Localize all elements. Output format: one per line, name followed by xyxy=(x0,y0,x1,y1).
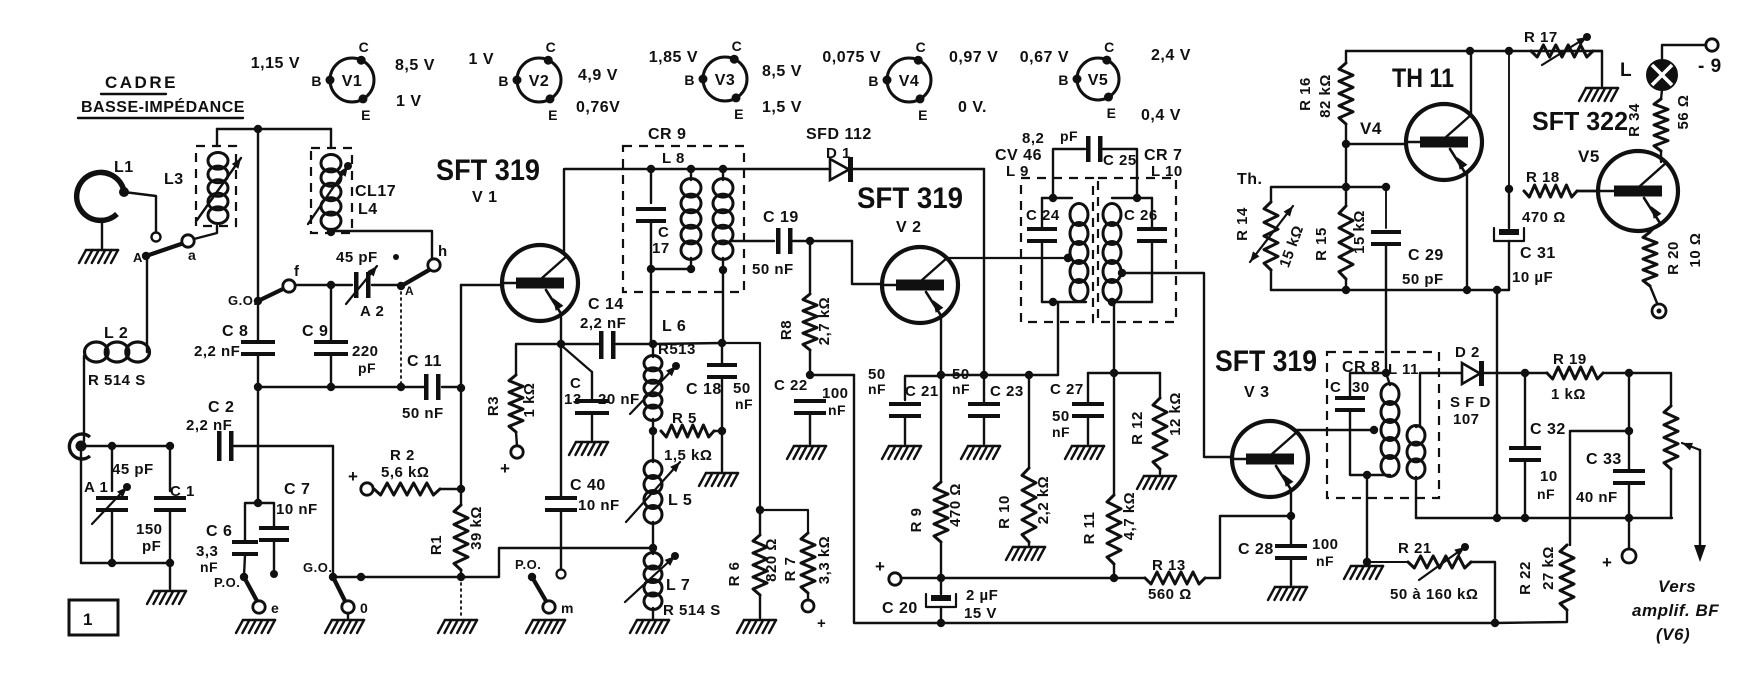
svg-text:R 18: R 18 xyxy=(1526,169,1560,186)
wire R18 node vertical xyxy=(1505,51,1513,193)
svg-text:+: + xyxy=(875,557,885,576)
svg-text:10: 10 xyxy=(1540,468,1558,485)
svg-text:L 10: L 10 xyxy=(1151,163,1183,180)
svg-text:45 pF: 45 pF xyxy=(336,249,378,266)
coax input connector xyxy=(69,434,174,459)
svg-text:R 9: R 9 xyxy=(908,508,925,533)
svg-text:Vers: Vers xyxy=(1658,577,1696,596)
capacitor C28 100nF xyxy=(1238,536,1339,600)
svg-text:100: 100 xyxy=(1312,536,1339,553)
svg-text:C 14: C 14 xyxy=(588,296,624,313)
wire L8 secondary tap to C19 xyxy=(731,240,774,242)
svg-text:10 µF: 10 µF xyxy=(1512,269,1553,286)
wire C2 to switch GO-o xyxy=(332,446,334,577)
ground under L1 xyxy=(79,220,118,263)
capacitor C9 220pF xyxy=(302,285,379,387)
resistor R16 82kOhm xyxy=(1297,51,1353,148)
svg-text:15 V: 15 V xyxy=(964,605,997,622)
svg-text:2 µF: 2 µF xyxy=(966,587,998,604)
svg-text:15 kΩ: 15 kΩ xyxy=(1351,210,1368,254)
svg-text:50 à 160 kΩ: 50 à 160 kΩ xyxy=(1390,586,1478,603)
svg-text:R 7: R 7 xyxy=(782,557,799,582)
svg-text:V2: V2 xyxy=(529,73,550,90)
svg-text:R 514 S: R 514 S xyxy=(88,372,146,389)
svg-text:R 514 S: R 514 S xyxy=(663,602,721,619)
svg-text:2,2 nF: 2,2 nF xyxy=(194,343,240,360)
svg-text:CADRE: CADRE xyxy=(105,73,178,92)
svg-text:C 11: C 11 xyxy=(407,353,442,370)
svg-text:1,5 V: 1,5 V xyxy=(762,99,802,116)
frame antenna L1 xyxy=(77,159,134,220)
coil L2 R514S xyxy=(84,257,150,441)
switch G.O.-f xyxy=(228,263,335,308)
wire V2 emitter down xyxy=(937,316,945,582)
transistor V5 SFT322 xyxy=(1598,151,1678,231)
IF transformer CR9 dashed box xyxy=(623,126,744,292)
+ terminal below C33 xyxy=(1602,518,1636,572)
svg-text:E: E xyxy=(1107,105,1117,121)
wire AGC takeoff to R22 xyxy=(1570,373,1633,545)
wire V1 emitter down xyxy=(557,314,565,497)
resistor R12 12kOhm xyxy=(1129,373,1184,489)
figure number box 1 xyxy=(69,600,118,635)
capacitor C6 3,3nF xyxy=(196,503,258,576)
wire V1 base xyxy=(461,284,503,286)
svg-text:a: a xyxy=(188,247,196,263)
svg-text:82 kΩ: 82 kΩ xyxy=(1317,74,1334,118)
svg-text:2,7 kΩ: 2,7 kΩ xyxy=(816,297,833,345)
svg-text:40 nF: 40 nF xyxy=(1576,489,1618,506)
AGC rail y=375 xyxy=(941,371,1058,379)
+ terminal and supply bus y=578 xyxy=(875,557,1145,585)
svg-text:C 18: C 18 xyxy=(686,381,722,398)
svg-text:50: 50 xyxy=(1052,408,1070,425)
svg-text:470 Ω: 470 Ω xyxy=(947,483,964,527)
svg-text:R 12: R 12 xyxy=(1129,411,1146,445)
svg-text:A: A xyxy=(405,284,414,298)
IF coil L6 R513 xyxy=(630,318,696,462)
capacitor C26 xyxy=(1124,198,1167,302)
switch G.O.-o xyxy=(303,560,368,633)
svg-text:nF: nF xyxy=(828,402,846,418)
switch A-a (cadre selector) xyxy=(133,226,217,265)
coil L8 primary xyxy=(647,169,701,344)
resistor R11 4,7kOhm xyxy=(1081,373,1138,582)
svg-text:50 nF: 50 nF xyxy=(402,405,444,422)
svg-text:CR 9: CR 9 xyxy=(648,126,686,143)
diode D1 SFD112 xyxy=(806,126,984,182)
svg-text:C 29: C 29 xyxy=(1408,247,1444,264)
svg-text:10 nF: 10 nF xyxy=(578,497,620,514)
svg-text:h: h xyxy=(438,243,448,260)
svg-text:50: 50 xyxy=(733,380,751,397)
svg-text:3,3 kΩ: 3,3 kΩ xyxy=(816,536,833,584)
svg-text:(V6): (V6) xyxy=(1656,625,1690,644)
svg-text:R 16: R 16 xyxy=(1297,77,1314,111)
resistor R21 50-160kOhm adjustable xyxy=(1390,540,1495,623)
svg-text:220: 220 xyxy=(352,343,379,360)
svg-text:C: C xyxy=(1330,379,1341,396)
thermistor R14 15kOhm xyxy=(1234,171,1307,290)
svg-text:50 pF: 50 pF xyxy=(1402,271,1444,288)
capacitor C18 50nF xyxy=(653,339,753,486)
wire V4 emitter xyxy=(1463,173,1471,294)
IF transformer CR7/L10 dashed box xyxy=(1098,147,1183,322)
wire y=169 to IF transformer and D1 xyxy=(565,165,830,173)
top wire node xyxy=(217,125,331,133)
svg-text:SFT 319: SFT 319 xyxy=(857,182,963,215)
resistor R6 820Ohm xyxy=(726,510,780,633)
resistor R2 5,6kOhm with + terminal xyxy=(348,447,461,495)
svg-text:R8: R8 xyxy=(778,320,795,340)
AGC bus y=623 xyxy=(854,375,1495,623)
svg-text:C 27: C 27 xyxy=(1050,381,1084,398)
resistor R8 2,7kOhm xyxy=(778,241,833,379)
svg-text:L 7: L 7 xyxy=(666,577,690,594)
capacitor C23 50nF xyxy=(952,366,1024,459)
capacitor C24 xyxy=(1026,198,1060,302)
svg-text:SFD 112: SFD 112 xyxy=(806,126,872,143)
svg-text:470 Ω: 470 Ω xyxy=(1522,209,1566,226)
svg-text:C 23: C 23 xyxy=(990,383,1024,400)
svg-text:2,2 kΩ: 2,2 kΩ xyxy=(1035,476,1052,524)
capacitor C13 20nF xyxy=(562,346,640,455)
svg-text:C 6: C 6 xyxy=(206,523,232,540)
svg-text:0,97 V: 0,97 V xyxy=(949,49,998,66)
svg-text:nF: nF xyxy=(1316,553,1334,569)
svg-text:C: C xyxy=(1104,39,1115,55)
svg-text:1 kΩ: 1 kΩ xyxy=(521,383,538,418)
label Vers amplif. BF (V6) xyxy=(1632,577,1719,644)
coil L7 R514S (adjustable) xyxy=(625,552,721,633)
svg-text:A 1: A 1 xyxy=(84,479,108,496)
wire base node down xyxy=(1342,144,1350,191)
coil L10 xyxy=(1103,194,1152,306)
label SFT 322 V5 xyxy=(1532,106,1628,166)
svg-text:1 V: 1 V xyxy=(468,51,494,68)
svg-text:1: 1 xyxy=(83,610,93,629)
svg-text:m: m xyxy=(561,600,574,616)
transistor V2 SFT319 xyxy=(882,247,958,323)
svg-text:B: B xyxy=(684,72,695,88)
bottom wire of input circuit xyxy=(81,559,186,604)
svg-text:pF: pF xyxy=(1060,128,1078,144)
svg-text:E: E xyxy=(734,106,744,122)
IF transformer CV46/L9 dashed box xyxy=(995,147,1093,322)
svg-text:150: 150 xyxy=(136,521,163,538)
wire V4 collector xyxy=(1470,51,1472,115)
svg-text:0: 0 xyxy=(360,600,368,616)
label SFT 319 V1 xyxy=(436,154,540,206)
lamp L and -9 terminal xyxy=(1620,39,1722,90)
wire top node down through C8 xyxy=(257,129,259,301)
svg-text:nF: nF xyxy=(952,381,970,397)
svg-text:C: C xyxy=(570,375,581,392)
svg-text:V 1: V 1 xyxy=(472,189,498,206)
svg-text:G.O.: G.O. xyxy=(228,293,257,308)
wire emitter node to R3 xyxy=(516,344,561,375)
trimmer A1 45pF xyxy=(84,446,154,563)
svg-text:S F D: S F D xyxy=(1450,394,1491,411)
svg-text:C 28: C 28 xyxy=(1238,541,1274,558)
svg-text:1,85 V: 1,85 V xyxy=(649,49,698,66)
svg-text:50 nF: 50 nF xyxy=(752,261,794,278)
svg-text:E: E xyxy=(361,107,371,123)
svg-text:R 19: R 19 xyxy=(1553,351,1587,368)
svg-text:C 20: C 20 xyxy=(882,600,918,617)
svg-text:G.O.: G.O. xyxy=(303,560,332,575)
svg-text:R 6: R 6 xyxy=(726,562,743,587)
voltage indicator V4 xyxy=(822,39,998,123)
svg-text:R 15: R 15 xyxy=(1313,227,1330,261)
wire V5 base from R18 xyxy=(1577,190,1598,192)
wire V2 collector to L9 tap xyxy=(947,254,1072,262)
resistor R3 1kOhm xyxy=(485,375,538,478)
svg-text:CR 7: CR 7 xyxy=(1144,147,1182,164)
capacitor C7 10nF xyxy=(258,481,318,578)
svg-text:39 kΩ: 39 kΩ xyxy=(468,506,485,550)
dotted wire from h contact down xyxy=(400,292,402,387)
wire V1 collector up xyxy=(563,169,565,253)
svg-text:107: 107 xyxy=(1453,411,1480,428)
voltage indicator V2 xyxy=(468,39,620,123)
switch h xyxy=(397,243,448,298)
svg-text:E: E xyxy=(918,107,928,123)
svg-text:CL17: CL17 xyxy=(355,183,396,200)
svg-text:C: C xyxy=(658,224,669,241)
wire CR8 bottom to ground and R21 xyxy=(1344,475,1408,579)
svg-text:V4: V4 xyxy=(1360,119,1382,138)
svg-text:3,3: 3,3 xyxy=(196,543,218,560)
capacitor C19 50nF xyxy=(752,209,852,278)
svg-text:V5: V5 xyxy=(1088,72,1109,89)
svg-text:e: e xyxy=(271,600,279,616)
resistor R1 39kOhm xyxy=(428,505,485,633)
resistor R10 2,2kOhm xyxy=(996,375,1052,560)
svg-text:0,76V: 0,76V xyxy=(576,99,620,116)
voltage indicator V5 xyxy=(1020,39,1191,124)
svg-text:- 9: - 9 xyxy=(1698,56,1722,77)
svg-text:45 pF: 45 pF xyxy=(112,461,154,478)
label SFT 319 V3 xyxy=(1215,345,1317,401)
wire V5 collector xyxy=(1660,151,1662,162)
capacitor C32 10nF xyxy=(1509,373,1566,518)
wire Th node xyxy=(1271,187,1389,202)
label TH 11 xyxy=(1360,63,1454,138)
svg-text:nF: nF xyxy=(1537,486,1555,502)
transistor V3 SFT319 xyxy=(1232,421,1308,497)
capacitor C2 2,2nF xyxy=(186,399,333,461)
svg-text:CV 46: CV 46 xyxy=(995,147,1042,164)
svg-text:56 Ω: 56 Ω xyxy=(1675,95,1692,130)
svg-text:1 kΩ: 1 kΩ xyxy=(1551,386,1586,403)
wire C22 node xyxy=(810,374,854,376)
svg-text:560 Ω: 560 Ω xyxy=(1148,586,1192,603)
svg-text:10 nF: 10 nF xyxy=(276,501,318,518)
wire L10 tap to V3 base xyxy=(1118,269,1230,457)
wire oscillator return bus xyxy=(335,548,653,581)
wire L1 to terminal xyxy=(124,192,161,242)
svg-text:V 2: V 2 xyxy=(896,219,922,236)
label SFT 319 V2 xyxy=(857,182,963,236)
svg-text:+: + xyxy=(1602,553,1612,572)
svg-text:B: B xyxy=(498,73,509,89)
svg-text:SFT 319: SFT 319 xyxy=(1215,345,1317,378)
svg-text:R 17: R 17 xyxy=(1524,29,1558,46)
coil L5 (adjustable) xyxy=(626,461,692,555)
svg-text:C 2: C 2 xyxy=(208,399,234,416)
resistor R18 470Ohm xyxy=(1522,169,1598,226)
switch P.O.-e xyxy=(214,573,279,633)
wire D1 output down to AGC rail xyxy=(980,169,988,402)
svg-text:B: B xyxy=(1058,72,1069,88)
resistor R34 56Ohm xyxy=(1626,90,1692,151)
svg-text:2,4 V: 2,4 V xyxy=(1151,47,1191,64)
capacitor C33 40nF xyxy=(1576,431,1645,518)
wire supply to CR8 xyxy=(1382,290,1390,377)
voltage indicator V3 xyxy=(649,38,802,122)
svg-text:C 25: C 25 xyxy=(1103,152,1137,169)
svg-text:pF: pF xyxy=(358,360,376,376)
svg-text:amplif. BF: amplif. BF xyxy=(1632,601,1719,620)
transistor V1 SFT319 xyxy=(502,245,578,321)
wire right tank bottom down xyxy=(1110,302,1118,377)
coil L8 secondary xyxy=(713,169,733,343)
svg-text:nF: nF xyxy=(868,381,886,397)
svg-text:L 5: L 5 xyxy=(668,492,692,509)
capacitor C14 2,2nF xyxy=(561,296,651,359)
svg-text:1 V: 1 V xyxy=(396,93,422,110)
svg-text:R1: R1 xyxy=(428,535,445,555)
coil L4 / CL17 (dashed box) xyxy=(308,129,396,236)
resistor R9 470Ohm xyxy=(908,482,964,542)
svg-text:C 32: C 32 xyxy=(1530,421,1566,438)
svg-text:TH 11: TH 11 xyxy=(1392,63,1454,93)
resistor R13 560Ohm xyxy=(1145,516,1291,603)
transistor V4 TH11 xyxy=(1406,104,1482,180)
coil L11 secondary xyxy=(1407,373,1461,518)
svg-text:R3: R3 xyxy=(485,396,502,416)
capacitor C30 xyxy=(1330,373,1390,479)
svg-text:R 34: R 34 xyxy=(1626,103,1643,137)
svg-text:C 19: C 19 xyxy=(763,209,799,226)
capacitor C1 150pF xyxy=(136,446,195,563)
svg-text:0 V.: 0 V. xyxy=(958,99,987,116)
svg-text:8,5 V: 8,5 V xyxy=(395,57,435,74)
svg-text:L 2: L 2 xyxy=(104,325,128,342)
wire left tank bottom down xyxy=(1057,302,1059,375)
capacitor C27 50nF xyxy=(1050,373,1104,459)
svg-text:V 3: V 3 xyxy=(1244,384,1270,401)
svg-text:f: f xyxy=(294,263,300,280)
svg-text:A: A xyxy=(133,250,143,265)
coil L3 (adjustable, dashed box) xyxy=(164,129,241,226)
capacitor C22 100nF xyxy=(774,377,849,459)
svg-text:C 21: C 21 xyxy=(905,383,939,400)
svg-text:SFT 319: SFT 319 xyxy=(436,154,540,187)
svg-text:12 kΩ: 12 kΩ xyxy=(1167,392,1184,436)
svg-text:820 Ω: 820 Ω xyxy=(763,538,780,582)
svg-text:C 40: C 40 xyxy=(570,477,606,494)
svg-text:D 2: D 2 xyxy=(1455,344,1480,361)
svg-text:V1: V1 xyxy=(342,73,363,90)
svg-text:17: 17 xyxy=(652,240,670,257)
svg-text:R 10: R 10 xyxy=(996,495,1013,529)
svg-text:C: C xyxy=(546,39,557,55)
svg-text:1,5 kΩ: 1,5 kΩ xyxy=(664,447,712,464)
svg-text:C 9: C 9 xyxy=(302,323,328,340)
svg-text:L: L xyxy=(1620,60,1632,81)
svg-text:R 2: R 2 xyxy=(390,447,415,464)
svg-text:4,9 V: 4,9 V xyxy=(578,67,618,84)
svg-text:V5: V5 xyxy=(1578,147,1600,166)
supply rail bottom y=290 xyxy=(1271,286,1509,294)
capacitor C40 10nF xyxy=(545,477,620,579)
svg-text:B: B xyxy=(868,73,879,89)
svg-text:R 20: R 20 xyxy=(1665,241,1682,275)
capacitor C20 2uF 15V electrolytic xyxy=(882,578,998,627)
svg-text:8,5 V: 8,5 V xyxy=(762,63,802,80)
resistor R19 1kOhm xyxy=(1547,351,1671,406)
svg-text:B: B xyxy=(311,73,322,89)
svg-text:C: C xyxy=(359,39,370,55)
switch P.O.-m xyxy=(515,557,574,633)
svg-text:4,7 kΩ: 4,7 kΩ xyxy=(1121,492,1138,540)
coil L9 xyxy=(1042,194,1088,306)
wire bus y=387 xyxy=(254,383,424,391)
svg-text:2,2 nF: 2,2 nF xyxy=(580,315,626,332)
svg-text:pF: pF xyxy=(142,538,161,555)
svg-text:nF: nF xyxy=(735,396,753,412)
svg-text:8,2: 8,2 xyxy=(1022,130,1044,147)
bias chain vertical wire xyxy=(457,285,465,505)
wire coax shield down xyxy=(80,452,82,563)
svg-text:V3: V3 xyxy=(715,72,736,89)
resistor R22 27kOhm xyxy=(1491,545,1574,627)
title CADRE BASSE-IMPEDANCE xyxy=(78,73,245,118)
svg-text:10 Ω: 10 Ω xyxy=(1687,233,1704,268)
svg-text:+: + xyxy=(348,467,358,486)
svg-text:P.O.: P.O. xyxy=(515,557,541,572)
supply rail top y=51 xyxy=(1346,47,1602,55)
svg-text:R 13: R 13 xyxy=(1152,557,1186,574)
coil L11 primary xyxy=(1370,373,1399,477)
wire to R6/R7 divider xyxy=(722,343,764,514)
svg-text:0,4 V: 0,4 V xyxy=(1141,107,1181,124)
svg-text:C 7: C 7 xyxy=(284,481,310,498)
wire L4 bottom to switch h xyxy=(331,231,432,258)
resistor R5 1,5kOhm xyxy=(661,410,726,464)
svg-text:SFT 322: SFT 322 xyxy=(1532,106,1628,136)
wire V2 base xyxy=(852,241,882,284)
volume potentiometer xyxy=(1664,406,1706,562)
wire y=373 to C27 and R12 xyxy=(1088,372,1160,374)
svg-text:C: C xyxy=(916,39,927,55)
voltage indicator V1 xyxy=(251,39,435,123)
node C6/C7 xyxy=(254,387,262,507)
wire V3 base xyxy=(1230,457,1232,459)
capacitor C25 8,2pF link xyxy=(1022,128,1137,198)
capacitor C8 2,2nF xyxy=(194,301,275,387)
capacitor C29 50pF xyxy=(1371,183,1444,290)
svg-text:L4: L4 xyxy=(358,201,378,218)
IF transformer CR8/L11 dashed box xyxy=(1327,352,1439,498)
svg-text:L1: L1 xyxy=(114,159,134,176)
svg-text:L 6: L 6 xyxy=(662,318,686,335)
svg-text:L 11: L 11 xyxy=(1388,361,1419,378)
capacitor C21 50nF xyxy=(868,366,941,459)
svg-text:C: C xyxy=(732,38,743,54)
